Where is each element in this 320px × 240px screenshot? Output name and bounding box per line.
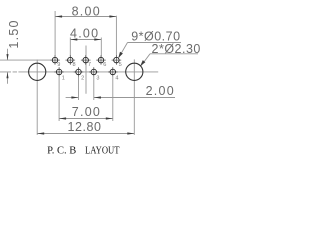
svg-text:8: 8 bbox=[73, 62, 76, 68]
svg-text:1.50: 1.50 bbox=[7, 19, 21, 48]
svg-text:2*Ø2.30: 2*Ø2.30 bbox=[152, 42, 201, 56]
svg-text:4: 4 bbox=[115, 76, 118, 82]
svg-text:3: 3 bbox=[96, 76, 99, 82]
svg-text:9: 9 bbox=[57, 62, 60, 68]
svg-text:7: 7 bbox=[88, 62, 91, 68]
svg-text:LAYOUT: LAYOUT bbox=[85, 145, 120, 156]
svg-text:2.00: 2.00 bbox=[146, 84, 175, 98]
svg-text:6: 6 bbox=[103, 62, 106, 68]
svg-text:12.80: 12.80 bbox=[68, 120, 102, 134]
svg-text:5: 5 bbox=[119, 62, 122, 68]
svg-text:2: 2 bbox=[81, 76, 84, 82]
svg-text:4.00: 4.00 bbox=[70, 26, 99, 40]
svg-text:1: 1 bbox=[62, 76, 65, 82]
svg-text:7.00: 7.00 bbox=[72, 105, 101, 119]
svg-text:8.00: 8.00 bbox=[72, 5, 101, 19]
svg-text:P. C. B: P. C. B bbox=[47, 145, 76, 156]
